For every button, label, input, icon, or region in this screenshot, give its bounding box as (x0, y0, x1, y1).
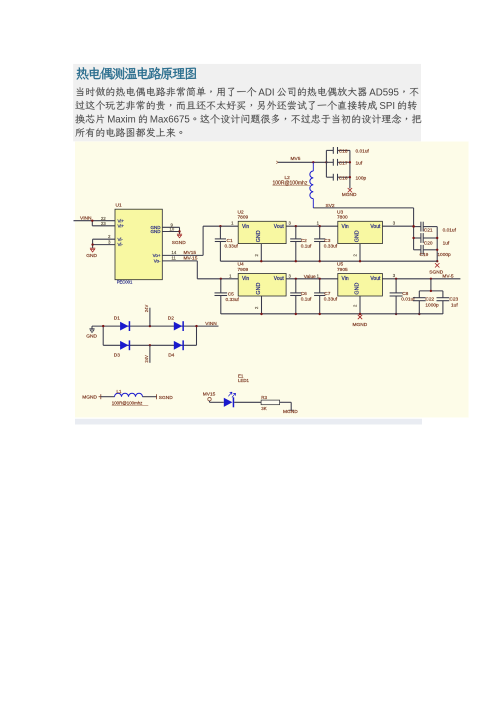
svg-text:11: 11 (172, 256, 177, 261)
svg-text:U5: U5 (337, 262, 343, 268)
svg-text:Vi-: Vi- (118, 242, 124, 247)
svg-text:Vin: Vin (242, 224, 249, 230)
svg-text:C23: C23 (449, 297, 458, 303)
svg-text:MV15: MV15 (184, 250, 197, 256)
svg-text:MV-15: MV-15 (184, 256, 198, 262)
svg-text:C21: C21 (424, 228, 433, 234)
svg-text:0.01uf: 0.01uf (443, 228, 457, 234)
svg-text:C8: C8 (402, 291, 408, 297)
svg-text:7909: 7909 (238, 267, 249, 273)
svg-text:C19: C19 (420, 252, 429, 258)
svg-text:0.33uf: 0.33uf (226, 297, 240, 303)
svg-text:7800: 7800 (337, 215, 348, 221)
svg-text:Vo+: Vo+ (153, 253, 161, 258)
svg-text:7905: 7905 (337, 267, 348, 273)
svg-text:GND: GND (86, 333, 97, 339)
svg-text:C5: C5 (228, 291, 234, 297)
svg-text:Vi+: Vi+ (118, 223, 125, 228)
svg-text:23: 23 (101, 221, 106, 226)
svg-text:GND: GND (151, 229, 162, 234)
svg-text:Vout: Vout (370, 276, 381, 282)
svg-text:Vin: Vin (342, 224, 349, 230)
svg-text:VINN: VINN (205, 321, 217, 327)
svg-text:Maxim: Maxim (107, 115, 136, 126)
svg-text:U3: U3 (337, 209, 343, 215)
svg-text:VINN: VINN (80, 216, 92, 222)
svg-text:1000p: 1000p (425, 302, 439, 308)
svg-text:GND: GND (256, 230, 262, 242)
svg-text:C20: C20 (424, 240, 433, 246)
svg-text:Vin: Vin (342, 276, 349, 282)
svg-text:Vo-: Vo- (154, 259, 161, 264)
svg-text:D1: D1 (114, 315, 120, 321)
svg-text:24V: 24V (144, 355, 149, 363)
svg-text:MGND: MGND (82, 394, 97, 400)
svg-text:Vout: Vout (370, 224, 381, 230)
svg-text:C16: C16 (339, 175, 348, 181)
svg-text:ADI: ADI (258, 87, 274, 98)
svg-text:U2: U2 (238, 209, 244, 215)
svg-text:SV2: SV2 (326, 203, 335, 209)
svg-text:MV-5: MV-5 (442, 274, 454, 280)
svg-text:SGND: SGND (172, 240, 186, 246)
svg-text:1uf: 1uf (356, 161, 363, 167)
svg-text:Max6675: Max6675 (150, 115, 190, 126)
svg-text:Vin: Vin (242, 276, 249, 282)
svg-text:C6: C6 (301, 291, 307, 297)
svg-text:GND: GND (86, 253, 97, 259)
svg-text:Vout: Vout (274, 276, 285, 282)
svg-text:0.1uf: 0.1uf (301, 243, 312, 249)
svg-text:7809: 7809 (238, 215, 249, 221)
svg-text:Vout: Vout (274, 224, 285, 230)
svg-text:MGND: MGND (342, 192, 357, 198)
svg-text:MGND: MGND (283, 409, 298, 415)
svg-text:0.33uf: 0.33uf (324, 243, 338, 249)
svg-text:D4: D4 (168, 352, 174, 358)
svg-text:0.33uf: 0.33uf (225, 243, 239, 249)
svg-text:1uf: 1uf (451, 302, 458, 308)
svg-text:1uf: 1uf (443, 240, 450, 246)
svg-text:AD595: AD595 (369, 87, 399, 98)
svg-text:LED1: LED1 (238, 378, 250, 383)
svg-text:C3: C3 (324, 238, 330, 244)
svg-text:MV15: MV15 (203, 391, 216, 397)
svg-text:C17: C17 (339, 161, 348, 167)
svg-text:U4: U4 (238, 262, 244, 268)
svg-text:D3: D3 (114, 352, 120, 358)
svg-text:10: 10 (170, 227, 175, 232)
svg-text:0.33uf: 0.33uf (324, 296, 338, 302)
svg-text:L1: L1 (117, 389, 122, 394)
svg-text:MV5: MV5 (291, 156, 301, 162)
svg-text:100p: 100p (356, 175, 367, 181)
svg-text:R3: R3 (261, 395, 267, 400)
svg-text:SPI: SPI (379, 101, 395, 112)
svg-text:GND: GND (355, 230, 361, 242)
svg-text:14: 14 (172, 250, 177, 255)
svg-text:Value: Value (304, 274, 316, 280)
svg-text:C1: C1 (227, 238, 233, 244)
svg-text:PEC001: PEC001 (117, 279, 133, 284)
svg-text:U1: U1 (116, 203, 122, 209)
svg-text:1000p: 1000p (437, 252, 451, 258)
svg-text:C2: C2 (301, 238, 307, 244)
svg-text:100R@100mhz: 100R@100mhz (112, 400, 143, 405)
svg-text:24V: 24V (144, 305, 149, 313)
svg-text:C22: C22 (425, 297, 434, 303)
svg-text:0.1uf: 0.1uf (301, 296, 312, 302)
svg-text:C7: C7 (324, 291, 330, 297)
svg-text:GND: GND (256, 283, 262, 295)
svg-text:MGND: MGND (353, 322, 368, 328)
svg-text:3K: 3K (261, 406, 266, 411)
svg-text:SGND: SGND (159, 395, 173, 401)
svg-text:0.01uf: 0.01uf (356, 149, 370, 155)
svg-text:C18: C18 (339, 149, 348, 155)
svg-text:D2: D2 (168, 315, 174, 321)
svg-text:GND: GND (355, 283, 361, 295)
svg-text:Vi-: Vi- (118, 237, 124, 242)
